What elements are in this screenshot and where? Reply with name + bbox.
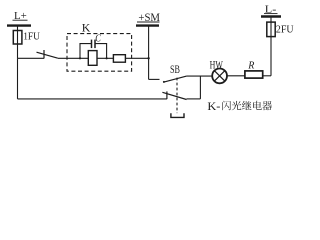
svg-text:2FU: 2FU bbox=[276, 24, 294, 35]
+SM underline bbox=[137, 21, 160, 23]
wire into flasher box bbox=[58, 57, 149, 59]
terminal +SM label bbox=[138, 12, 160, 24]
wire +SM down bbox=[148, 26, 150, 80]
contact K blade bbox=[37, 52, 58, 58]
flasher relay dashed box bbox=[67, 34, 132, 72]
contact K fixed tick bbox=[43, 50, 45, 59]
svg-text:SB: SB bbox=[170, 64, 180, 76]
bottom rail wire bbox=[18, 98, 167, 100]
SB bottom contact blade bbox=[162, 92, 186, 99]
junction node cap right bbox=[106, 57, 108, 59]
wire L+ down through fuse bbox=[17, 26, 19, 59]
capacitor branch right riser bbox=[95, 44, 106, 59]
resistor in box bbox=[113, 55, 125, 63]
svg-text:R: R bbox=[247, 61, 254, 72]
capacitor C plates bbox=[91, 40, 93, 49]
wire lamp to R bbox=[227, 75, 245, 77]
label C bbox=[95, 33, 101, 44]
L+ terminal bar bbox=[7, 24, 31, 26]
relay coil K bbox=[88, 51, 97, 66]
SB bottom right wire bbox=[187, 98, 201, 100]
SB blade pivot dot bbox=[163, 81, 165, 83]
wire junction to contact K bbox=[18, 57, 45, 59]
SB linkage dashed bbox=[176, 78, 178, 114]
caption CJK 闪光继电器 bbox=[222, 101, 272, 111]
caption K- bbox=[207, 99, 220, 113]
SB top contact blade bbox=[163, 76, 186, 82]
terminal L- label bbox=[265, 4, 277, 15]
label R bbox=[247, 61, 254, 72]
+SM terminal bar bbox=[136, 24, 159, 26]
svg-text:C: C bbox=[95, 33, 101, 44]
svg-text:1FU: 1FU bbox=[23, 32, 40, 43]
label HW bbox=[210, 58, 224, 72]
lamp HW bbox=[212, 69, 227, 84]
SB right bar down bbox=[199, 76, 201, 99]
wire down to bottom rail bbox=[17, 58, 19, 99]
wire to SB bbox=[149, 78, 160, 80]
resistor R bbox=[245, 71, 263, 78]
label SB bbox=[170, 64, 180, 76]
terminal L+ label bbox=[14, 11, 27, 22]
svg-text:K: K bbox=[82, 20, 91, 34]
junction node +SM bbox=[147, 57, 149, 59]
SB bottom contact fixed tick bbox=[166, 91, 168, 99]
SB top right wire bbox=[187, 75, 213, 77]
fuse 2FU bbox=[267, 22, 275, 36]
L+ underline bbox=[13, 19, 28, 21]
junction node cap left bbox=[79, 57, 81, 59]
SB button actuator bbox=[171, 113, 184, 117]
fuse 1FU bbox=[13, 31, 22, 45]
wire R to fuse branch bbox=[263, 75, 271, 77]
label K bbox=[82, 20, 91, 34]
capacitor branch left riser bbox=[80, 44, 91, 59]
wire up to 2FU bbox=[270, 16, 272, 75]
label 2FU bbox=[276, 24, 294, 35]
label 1FU bbox=[23, 32, 40, 43]
L- underline bbox=[264, 13, 278, 15]
svg-text:K-: K- bbox=[207, 99, 220, 113]
L- terminal bar bbox=[261, 15, 281, 17]
